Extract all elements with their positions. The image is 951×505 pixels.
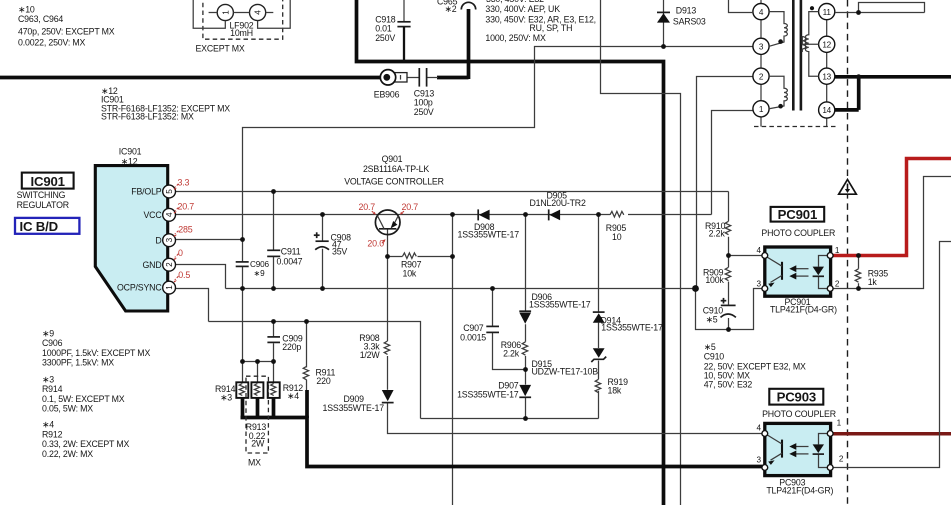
transformer winding pins 2-1 xyxy=(769,76,787,109)
wire: R908 to D909 xyxy=(387,356,389,390)
diode D909 xyxy=(323,390,394,413)
wire: R911 branch xyxy=(306,322,308,393)
wire: D909 cathode to PC903 pin4 rail xyxy=(388,403,765,434)
svg-text:4: 4 xyxy=(165,212,174,217)
svg-text:IC B/D: IC B/D xyxy=(20,219,58,234)
wire: C906 branch vertical xyxy=(242,240,244,289)
junction dots R907 line xyxy=(385,254,455,259)
IC B/D blue label xyxy=(15,218,79,234)
svg-text:2: 2 xyxy=(835,279,840,288)
junction dot D913 on D line xyxy=(661,44,666,49)
wire: D pin line to transformer pin3 xyxy=(175,47,753,240)
phase dot winding 2-1 xyxy=(778,104,783,109)
wire: transformer pin2 down to ground node xyxy=(697,77,754,289)
wire: vertical line x=452 to bottom edge xyxy=(452,215,454,505)
capacitor C906 xyxy=(236,260,270,278)
svg-text:OCP/SYNC: OCP/SYNC xyxy=(117,283,162,293)
svg-text:2.2k: 2.2k xyxy=(503,349,520,359)
svg-text:20.0: 20.0 xyxy=(367,238,384,248)
wire: R911 bottom thick stub xyxy=(305,390,309,418)
svg-text:R914: R914 xyxy=(42,384,63,394)
junction dots OCP rail xyxy=(271,319,309,324)
IC901 pin 5 FB/OLP xyxy=(131,185,175,198)
svg-text:FB/OLP: FB/OLP xyxy=(131,187,162,197)
svg-text:0.05, 5W: MX: 0.05, 5W: MX xyxy=(42,403,93,413)
isolation boundary dashed line xyxy=(847,0,849,505)
svg-text:11: 11 xyxy=(823,8,832,17)
capacitor C913 xyxy=(414,68,435,117)
svg-text:∗9: ∗9 xyxy=(254,269,266,278)
transformer secondary winding 11-13 xyxy=(805,12,818,77)
junction dots resistor bank connector xyxy=(240,359,276,364)
diode D908 xyxy=(458,209,520,239)
transformer primary winding pins 4-3 xyxy=(769,12,787,47)
svg-text:1: 1 xyxy=(759,105,764,114)
svg-text:GND: GND xyxy=(142,260,161,270)
wire: R914 bank top connector xyxy=(243,289,274,383)
svg-text:VOLTAGE CONTROLLER: VOLTAGE CONTROLLER xyxy=(344,177,444,187)
svg-text:C906: C906 xyxy=(42,338,63,348)
wire: transformer pin4 lead up xyxy=(729,0,754,13)
wire: R907 horizontal branch xyxy=(388,256,453,258)
transformer winding 12 stub and second coil xyxy=(802,37,818,52)
svg-text:SARS03: SARS03 xyxy=(673,16,706,26)
wire: C909 branch xyxy=(273,322,275,337)
junction dots R935 xyxy=(856,253,861,291)
svg-text:1/2W: 1/2W xyxy=(360,350,381,360)
red arrows at Q901 xyxy=(372,211,404,243)
svg-text:330, 450V: E32: 330, 450V: E32 xyxy=(486,0,544,4)
svg-text:1000, 250V: MX: 1000, 250V: MX xyxy=(485,33,546,43)
zener diode D915 xyxy=(532,348,607,376)
svg-text:0.33, 2W: EXCEPT MX: 0.33, 2W: EXCEPT MX xyxy=(42,439,130,449)
svg-text:MX: MX xyxy=(248,458,261,468)
wire: transformer pin11 lead with loop xyxy=(835,3,925,13)
svg-text:0.0022, 250V: MX: 0.0022, 250V: MX xyxy=(18,38,86,48)
junction dot D907 lower rail xyxy=(523,416,528,421)
line filter LF902 dashed box xyxy=(203,0,283,39)
svg-text:VCC: VCC xyxy=(143,210,162,220)
inductor LF902 winding 4 xyxy=(250,4,266,20)
optocoupler PC903 xyxy=(765,423,831,475)
svg-text:1: 1 xyxy=(837,418,842,427)
svg-text:SWITCHING: SWITCHING xyxy=(17,190,66,200)
svg-text:PHOTO COUPLER: PHOTO COUPLER xyxy=(761,228,835,238)
svg-text:PHOTO COUPLER: PHOTO COUPLER xyxy=(762,409,836,419)
svg-text:EXCEPT MX: EXCEPT MX xyxy=(196,44,245,54)
resistor R919 xyxy=(595,377,628,396)
svg-text:0.5: 0.5 xyxy=(178,270,190,280)
diode D914 xyxy=(593,312,663,332)
wire: R910 chain from FB line xyxy=(728,192,730,330)
wire: GND pin2 step down to ground rail xyxy=(175,265,226,289)
junction dot pin13 wire xyxy=(856,74,861,79)
svg-text:4: 4 xyxy=(759,8,764,17)
svg-text:250V: 250V xyxy=(375,33,395,43)
transformer T901 core xyxy=(793,0,801,111)
wire: OCP/SYNC pin1 step down xyxy=(175,289,209,322)
svg-text:1: 1 xyxy=(835,246,840,255)
svg-text:∗5: ∗5 xyxy=(704,342,716,352)
svg-text:∗9: ∗9 xyxy=(42,328,54,338)
diode D913 xyxy=(657,0,706,47)
svg-text:1k: 1k xyxy=(868,277,878,287)
svg-text:PC903: PC903 xyxy=(777,389,816,404)
connector arc at drain riser top xyxy=(461,2,475,9)
svg-text:18k: 18k xyxy=(608,386,622,396)
svg-text:∗4: ∗4 xyxy=(287,391,299,401)
transformer dashed box bottom xyxy=(754,126,838,128)
svg-text:2W: 2W xyxy=(251,439,265,449)
svg-text:10: 10 xyxy=(612,232,622,242)
svg-text:C907: C907 xyxy=(463,323,484,333)
wire: PC903 pin1 output (dark red) xyxy=(831,432,951,436)
svg-text:1SS355WTE-17: 1SS355WTE-17 xyxy=(457,390,519,400)
resistor R909 xyxy=(703,267,731,285)
svg-text:∗3: ∗3 xyxy=(42,374,54,384)
svg-text:IC901: IC901 xyxy=(31,174,65,189)
junction dot C910 bottom xyxy=(726,327,731,332)
svg-text:REGULATOR: REGULATOR xyxy=(17,200,69,210)
wire: D914/D915/R919 branch chain xyxy=(598,215,600,419)
junction dot pin11 lead xyxy=(856,10,861,15)
IC901 switching regulator block xyxy=(95,166,167,311)
wire: thick bus from top via C918 node down right side xyxy=(357,0,664,505)
svg-text:∗12: ∗12 xyxy=(121,157,138,167)
wire: resistor bank bottom thick stubs xyxy=(243,398,274,418)
svg-text:5: 5 xyxy=(165,189,174,194)
transistor Q901 xyxy=(344,154,444,248)
resistor R908 xyxy=(359,333,390,360)
svg-text:20.7: 20.7 xyxy=(178,202,195,212)
wire: OCP rail to lower loop xyxy=(209,322,421,419)
wire: thick ground return rail to PC903 pin3 xyxy=(241,418,765,467)
svg-text:10k: 10k xyxy=(403,268,417,278)
svg-text:2: 2 xyxy=(839,454,844,463)
wire: PC901 pin2 return xyxy=(831,177,951,289)
svg-text:∗2: ∗2 xyxy=(445,4,457,14)
IC901 boxed designator label xyxy=(17,173,74,211)
svg-text:2: 2 xyxy=(759,72,764,81)
optocoupler PC901 xyxy=(765,247,831,296)
resistor R935 xyxy=(855,268,888,287)
svg-text:1000PF, 1.5kV: EXCEPT MX: 1000PF, 1.5kV: EXCEPT MX xyxy=(42,348,150,358)
svg-text:1SS355WTE-17: 1SS355WTE-17 xyxy=(458,230,520,240)
junction dots VCC line xyxy=(320,212,601,217)
svg-text:220p: 220p xyxy=(282,342,301,352)
wire: PC901 pin1 red output xyxy=(831,159,951,256)
svg-text:3300PF, 1.5kV: MX: 3300PF, 1.5kV: MX xyxy=(42,358,114,368)
svg-text:4: 4 xyxy=(254,10,263,15)
svg-text:1SS355WTE-17: 1SS355WTE-17 xyxy=(323,403,385,413)
wire: EB906 to C913 xyxy=(396,77,419,79)
IC901 pin voltage values (red) xyxy=(178,178,195,281)
PC903 pin circles xyxy=(757,418,844,470)
svg-text:Q901: Q901 xyxy=(382,154,403,164)
phase dot winding 4-3 xyxy=(778,39,783,44)
svg-text:330, 400V: AEP, UK: 330, 400V: AEP, UK xyxy=(485,4,560,14)
svg-text:285: 285 xyxy=(178,225,193,235)
svg-text:4: 4 xyxy=(757,424,762,433)
svg-text:RU, SP, TH: RU, SP, TH xyxy=(529,23,572,33)
capacitor C907 xyxy=(460,323,499,343)
svg-text:0.0015: 0.0015 xyxy=(460,333,486,343)
svg-text:100k: 100k xyxy=(705,275,724,285)
svg-text:2.2k: 2.2k xyxy=(709,228,726,238)
wire: R910/R909 node to PC901 pin4 xyxy=(729,255,765,257)
wire: PC903 pin2 return xyxy=(831,242,951,468)
svg-text:35V: 35V xyxy=(332,247,347,257)
wire: C908 branch xyxy=(322,215,324,289)
capacitor C910 electrolytic xyxy=(703,298,736,325)
junction dot D pin line xyxy=(240,237,245,242)
svg-text:C911: C911 xyxy=(281,246,301,256)
svg-text:C963, C964: C963, C964 xyxy=(18,14,63,24)
wire: FB/OLP pin5 line (3.3V) to R910 xyxy=(175,191,729,193)
wire: drain riser thick segment xyxy=(437,9,469,79)
svg-text:PC901: PC901 xyxy=(778,207,817,222)
svg-text:∗10: ∗10 xyxy=(18,4,35,14)
wire: top entry line x=600 over to x=680 down to bottom xyxy=(601,0,681,505)
IC901 pin 3 D xyxy=(155,234,175,247)
transformer T901 right pins xyxy=(819,4,835,127)
inductor LF902 winding 1 xyxy=(217,4,233,20)
svg-text:3: 3 xyxy=(757,455,762,464)
IC901 pin 1 OCP/SYNC xyxy=(117,281,176,294)
R913 dashed box and label xyxy=(246,376,269,467)
resistor R911 xyxy=(303,366,335,385)
svg-text:TLP421F(D4-GR): TLP421F(D4-GR) xyxy=(770,304,837,314)
svg-text:1SS355WTE-17: 1SS355WTE-17 xyxy=(529,300,591,310)
resistor R906 xyxy=(501,340,528,359)
resistor R914 (box style) xyxy=(215,382,248,402)
junction dots FB line xyxy=(271,189,276,194)
svg-text:14: 14 xyxy=(822,106,831,115)
resistor R910 xyxy=(705,221,731,239)
wire: LF902 left lead xyxy=(193,0,225,28)
capacitor C911 xyxy=(267,246,302,266)
wire: LF902 stubs xyxy=(209,12,274,14)
svg-text:0: 0 xyxy=(178,248,183,258)
wire: AC input bus (thick) xyxy=(0,76,381,80)
svg-text:IC901: IC901 xyxy=(119,146,142,156)
svg-text:D913: D913 xyxy=(676,5,697,15)
red arrows to pins xyxy=(174,184,179,283)
svg-text:D1NL20U-TR2: D1NL20U-TR2 xyxy=(530,198,586,208)
phase dot secondary winding xyxy=(810,6,814,10)
svg-text:12: 12 xyxy=(822,41,831,50)
junction dots ground rail xyxy=(240,285,699,292)
capacitor C908 electrolytic xyxy=(314,232,351,256)
svg-text:13: 13 xyxy=(822,72,831,81)
wire: VCC pin4 line (20.7V) segments xyxy=(175,214,712,216)
svg-text:1: 1 xyxy=(221,10,230,15)
resistor R905 xyxy=(606,211,627,242)
diode D906 xyxy=(519,292,590,324)
svg-text:C910: C910 xyxy=(704,352,725,362)
PC901 pin circles xyxy=(757,246,840,292)
svg-text:47, 50V: E32: 47, 50V: E32 xyxy=(704,380,753,390)
svg-text:3: 3 xyxy=(165,237,174,242)
wire: C911 branch xyxy=(273,192,275,289)
wire: R935 branch xyxy=(858,256,860,289)
svg-text:1SS355WTE-17: 1SS355WTE-17 xyxy=(601,322,663,332)
wire: transformer pin13 thick output xyxy=(835,77,951,110)
svg-text:0.1, 5W: EXCEPT MX: 0.1, 5W: EXCEPT MX xyxy=(42,394,125,404)
IC901 pin 4 VCC xyxy=(143,208,175,221)
svg-text:0.22, 2W: MX: 0.22, 2W: MX xyxy=(42,449,93,459)
resistor R913 (box style, middle) xyxy=(251,382,263,398)
svg-text:3: 3 xyxy=(759,43,764,52)
svg-text:220: 220 xyxy=(316,376,330,386)
wire: transformer pin1 down to VCC line xyxy=(712,111,753,215)
svg-text:2: 2 xyxy=(165,262,174,267)
svg-text:2SB1116A-TP-LK: 2SB1116A-TP-LK xyxy=(363,164,429,174)
svg-text:250V: 250V xyxy=(414,107,434,117)
ferrite bead EB906 xyxy=(374,70,407,100)
PC903 boxed label xyxy=(762,389,836,419)
svg-text:∗5: ∗5 xyxy=(706,314,718,324)
wire: D906 branch chain xyxy=(525,215,527,419)
wire: ground rail xyxy=(226,288,696,290)
warning symbol xyxy=(839,180,857,195)
svg-text:UDZW-TE17-10B: UDZW-TE17-10B xyxy=(532,367,599,377)
junction dot C907/R906 node xyxy=(523,367,528,372)
wire: ground node loop under C910 to PC901 pin3 xyxy=(696,289,765,330)
wire: C907 branch xyxy=(493,289,526,370)
wire: LF902 right lead xyxy=(258,0,291,28)
svg-text:∗4: ∗4 xyxy=(42,419,54,429)
IC901 pin 2 GND xyxy=(142,258,175,271)
svg-text:EB906: EB906 xyxy=(374,90,400,100)
PC901 boxed label xyxy=(761,207,835,238)
resistor R912 (box style) xyxy=(268,382,304,401)
capacitor C918 xyxy=(375,0,410,62)
transformer T901 left pins xyxy=(753,0,769,127)
svg-text:20.7: 20.7 xyxy=(359,202,376,212)
wire: C913 to drain riser xyxy=(427,77,438,79)
wire: lower rail D907/R919 xyxy=(421,418,599,420)
svg-text:C906: C906 xyxy=(250,260,269,269)
svg-text:0.0047: 0.0047 xyxy=(277,257,303,267)
svg-text:1: 1 xyxy=(165,285,174,290)
svg-text:10mH: 10mH xyxy=(230,28,253,38)
wire: Q901 base chain down to R908 xyxy=(387,229,389,341)
svg-text:20.7: 20.7 xyxy=(402,202,419,212)
svg-text:3.3: 3.3 xyxy=(178,178,190,188)
svg-text:∗3: ∗3 xyxy=(220,392,232,402)
svg-text:4: 4 xyxy=(757,246,762,255)
junction dot R910/R909 node xyxy=(726,253,731,258)
diode D907 xyxy=(457,381,531,400)
resistor R907 xyxy=(401,253,422,279)
svg-text:TLP421F(D4-GR): TLP421F(D4-GR) xyxy=(766,485,833,495)
svg-text:STR-F6138-LF1352: MX: STR-F6138-LF1352: MX xyxy=(101,111,194,121)
capacitor C909 xyxy=(267,334,302,353)
svg-text:3: 3 xyxy=(757,279,762,288)
diode D905 xyxy=(530,191,586,221)
svg-text:470p, 250V: EXCEPT MX: 470p, 250V: EXCEPT MX xyxy=(18,26,115,36)
svg-text:D: D xyxy=(155,235,161,245)
